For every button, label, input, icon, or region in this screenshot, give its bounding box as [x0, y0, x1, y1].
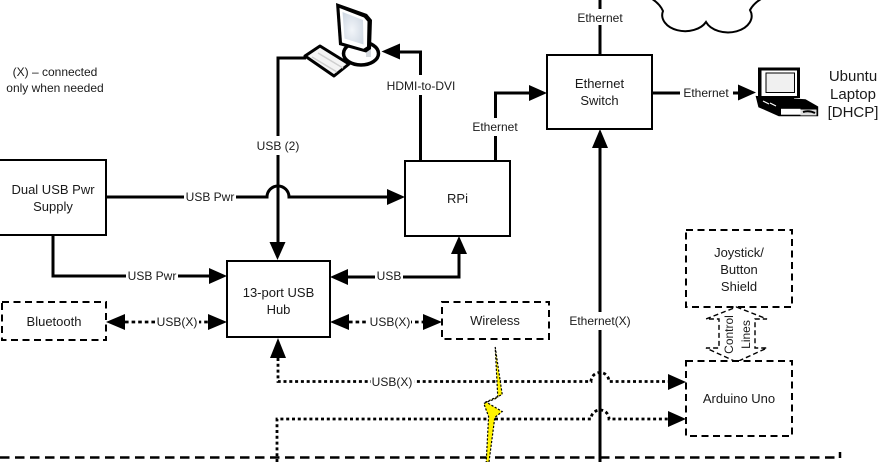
svg-text:Shield: Shield [721, 279, 757, 294]
wire USB (2) keyboard to hub [278, 58, 306, 242]
svg-text:Lines: Lines [739, 320, 753, 349]
svg-text:HDMI-to-DVI: HDMI-to-DVI [387, 79, 456, 93]
wire Ethernet switch to laptop [652, 92, 738, 95]
wire Ethernet(X) vertical [599, 148, 602, 462]
svg-text:13-port USB: 13-port USB [243, 285, 315, 300]
wire Ethernet cloud to switch [599, 0, 602, 55]
wire USB hub to RPi [348, 254, 459, 277]
svg-text:Switch: Switch [580, 93, 618, 108]
box Ethernet Switch [547, 55, 652, 129]
svg-text:Ethernet: Ethernet [683, 86, 729, 100]
wire Ethernet RPi to switch [496, 93, 530, 161]
svg-text:Joystick/: Joystick/ [714, 245, 764, 260]
svg-text:[DHCP]: [DHCP] [828, 104, 879, 121]
svg-text:Button: Button [720, 262, 758, 277]
svg-text:USB: USB [377, 269, 402, 283]
svg-text:only when needed: only when needed [6, 81, 103, 95]
svg-text:Hub: Hub [267, 302, 291, 317]
wire USB(X) hub to Arduino (dashed, with hop) [278, 358, 668, 382]
svg-text:Ubuntu: Ubuntu [829, 68, 877, 85]
keyboard icon [305, 46, 349, 76]
svg-text:Arduino Uno: Arduino Uno [703, 391, 775, 406]
svg-text:USB Pwr: USB Pwr [128, 269, 177, 283]
wire HDMI-to-DVI RPi to monitor [399, 52, 421, 161]
svg-text:Wireless: Wireless [470, 313, 520, 328]
wire USB(X) Bluetooth to hub (dashed, double arrow) [125, 321, 209, 324]
box Bluetooth (dashed) [2, 302, 106, 340]
monitor icon [336, 3, 379, 65]
control lines block arrow [706, 307, 767, 362]
lightning bolt [484, 347, 502, 462]
wire USB(X) hub to Wireless (dashed, double arrow) [349, 321, 423, 324]
svg-text:Ethernet: Ethernet [472, 120, 518, 134]
svg-text:Ethernet: Ethernet [575, 76, 625, 91]
svg-text:RPi: RPi [447, 191, 468, 206]
box Joystick/Button Shield (dashed) [686, 230, 792, 307]
cloud Internet [647, 0, 767, 32]
svg-text:USB(X): USB(X) [372, 375, 413, 389]
svg-text:USB(X): USB(X) [370, 315, 411, 329]
wire bus to Arduino (dashed, with hop) [277, 410, 668, 462]
box Arduino Uno (dashed) [686, 361, 792, 436]
svg-text:(X) – connected: (X) – connected [13, 65, 98, 79]
svg-text:USB Pwr: USB Pwr [186, 190, 235, 204]
wire USB Pwr supply to RPi (with hop) [106, 186, 387, 197]
box RPi [405, 161, 510, 236]
svg-text:Control: Control [722, 315, 736, 354]
box 13-port USB Hub [227, 261, 330, 337]
box Wireless (dashed) [442, 302, 549, 339]
svg-text:USB (2): USB (2) [257, 139, 300, 153]
svg-text:USB(X): USB(X) [157, 315, 198, 329]
svg-text:Ethernet: Ethernet [577, 11, 623, 25]
svg-text:Ethernet(X): Ethernet(X) [569, 314, 630, 328]
box Dual USB Pwr Supply [0, 160, 106, 235]
svg-text:Dual USB Pwr: Dual USB Pwr [11, 182, 95, 197]
svg-text:Supply: Supply [33, 199, 73, 214]
laptop icon [756, 68, 819, 117]
bus dashed bottom [0, 452, 840, 458]
svg-text:Laptop: Laptop [830, 86, 876, 103]
wire USB Pwr supply to hub [53, 235, 209, 276]
svg-text:Bluetooth: Bluetooth [27, 314, 82, 329]
